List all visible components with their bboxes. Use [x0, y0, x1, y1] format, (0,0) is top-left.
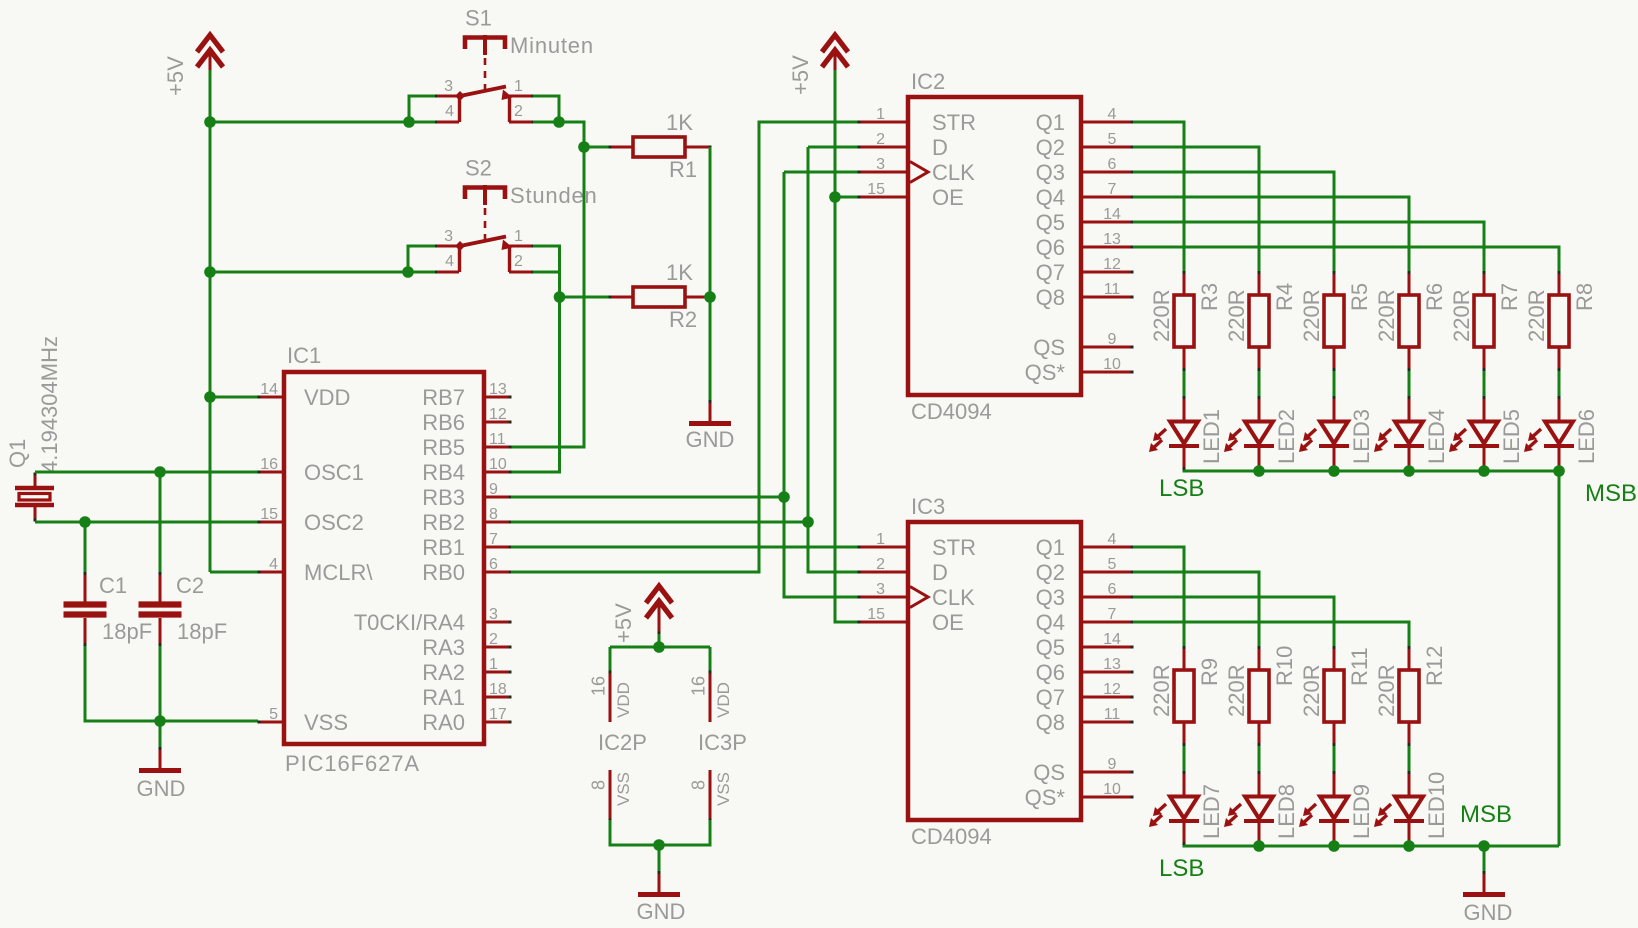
IC1 pin 15 OSC2	[258, 506, 364, 535]
svg-text:GND: GND	[686, 427, 735, 452]
svg-text:OSC1: OSC1	[304, 460, 364, 485]
wire R5 to LED3	[1333, 371, 1336, 396]
svg-text:4: 4	[269, 556, 278, 573]
svg-text:12: 12	[489, 406, 507, 423]
svg-text:RB7: RB7	[422, 385, 465, 410]
IC2 pin 3 CLK	[858, 156, 976, 185]
svg-text:LED1: LED1	[1199, 409, 1224, 464]
svg-text:17: 17	[489, 706, 507, 723]
svg-text:3: 3	[444, 228, 453, 245]
node OSC2/C1 junction	[79, 516, 91, 528]
svg-text:15: 15	[260, 506, 278, 523]
svg-text:220R: 220R	[1149, 664, 1174, 717]
wire +5V to S1 pins 3/4	[210, 96, 435, 122]
IC2 pin 14 Q5	[1036, 206, 1134, 235]
svg-text:220R: 220R	[1224, 289, 1249, 342]
IC3 pin 1 STR	[858, 531, 977, 560]
svg-text:RB2: RB2	[422, 510, 465, 535]
svg-text:10: 10	[1103, 356, 1121, 373]
svg-text:LED7: LED7	[1199, 784, 1224, 839]
svg-text:2: 2	[514, 253, 523, 270]
svg-text:Q6: Q6	[1036, 660, 1065, 685]
svg-text:8: 8	[589, 780, 609, 790]
wire R1/R2 right side to GND	[709, 147, 712, 406]
IC1 pin 12 RB6	[422, 406, 511, 435]
wire RB5 net: S1 out to R1 and to IC1 RB5 pin 11	[511, 122, 610, 447]
svg-text:LED6: LED6	[1574, 409, 1599, 464]
IC1 pin 17 RA0	[422, 706, 511, 735]
svg-text:1K: 1K	[666, 260, 693, 285]
svg-text:Minuten: Minuten	[510, 33, 594, 58]
svg-text:220R: 220R	[1374, 289, 1399, 342]
IC1 pin 10 RB4	[422, 456, 511, 485]
svg-text:RB3: RB3	[422, 485, 465, 510]
svg-text:Q1: Q1	[1036, 535, 1065, 560]
diode LED5	[1449, 396, 1524, 470]
node VSS junction	[653, 839, 665, 851]
node LED bus junction	[1478, 465, 1490, 477]
svg-text:9: 9	[1108, 756, 1117, 773]
svg-text:IC3: IC3	[911, 494, 945, 519]
svg-text:CD4094: CD4094	[911, 399, 992, 424]
IC1 pin 18 RA1	[422, 681, 511, 710]
svg-text:4: 4	[1108, 531, 1117, 548]
svg-text:18: 18	[489, 681, 507, 698]
svg-text:OSC2: OSC2	[304, 510, 364, 535]
node RB3 junction	[778, 491, 790, 503]
diode LED1	[1149, 396, 1224, 470]
svg-text:14: 14	[1103, 206, 1121, 223]
IC3 pin 14 Q5	[1036, 631, 1134, 660]
node LED bus junction	[1253, 465, 1265, 477]
svg-text:1: 1	[876, 531, 885, 548]
svg-text:+5V: +5V	[611, 603, 636, 643]
IC1 pin 2 RA3	[422, 631, 511, 660]
wire R4 to LED2	[1258, 371, 1261, 396]
wire LED cathode bus (lower bank)	[1184, 845, 1559, 846]
svg-text:3: 3	[444, 78, 453, 95]
svg-text:LED8: LED8	[1274, 784, 1299, 839]
+5V supply symbol (IC2 area)	[788, 35, 848, 95]
IC2 pin 10 QS*	[1025, 356, 1134, 385]
+5V supply symbol (power block)	[611, 586, 672, 643]
resistor R7 220R	[1449, 271, 1522, 371]
wire IC2 Q6 to R8	[1133, 247, 1559, 271]
svg-text:IC1: IC1	[287, 343, 321, 368]
diode LED4	[1374, 396, 1449, 470]
svg-text:RB5: RB5	[422, 435, 465, 460]
svg-text:C1: C1	[99, 573, 127, 598]
wire OSC1: crystal top to IC1 pin 16	[35, 471, 258, 474]
svg-text:R6: R6	[1422, 283, 1447, 311]
svg-text:GND: GND	[637, 899, 686, 924]
svg-text:Q4: Q4	[1036, 610, 1065, 635]
diode LED10	[1374, 771, 1449, 845]
wire R9 to LED7	[1183, 746, 1186, 771]
svg-text:12: 12	[1103, 256, 1121, 273]
svg-text:11: 11	[489, 431, 506, 448]
svg-text:220R: 220R	[1374, 664, 1399, 717]
node +5V/S1 junction	[204, 116, 216, 128]
capacitor C2 18pF	[139, 572, 228, 646]
wire RB4 net: S2 out to R2 and to IC1 RB4 pin 10	[511, 297, 610, 472]
svg-text:IC2P: IC2P	[598, 730, 647, 755]
svg-text:18pF: 18pF	[102, 619, 152, 644]
resistor R8 220R	[1524, 271, 1597, 371]
svg-text:QS: QS	[1033, 760, 1065, 785]
svg-text:5: 5	[1108, 131, 1117, 148]
wire +5V to IC1 VDD pin 14	[210, 396, 258, 399]
svg-text:9: 9	[489, 481, 498, 498]
svg-text:Q8: Q8	[1036, 710, 1065, 735]
svg-text:R12: R12	[1422, 646, 1447, 686]
svg-text:PIC16F627A: PIC16F627A	[285, 751, 420, 776]
svg-text:R9: R9	[1197, 658, 1222, 686]
IC1 pin 6 RB0	[422, 556, 511, 585]
+5V supply symbol (left rail)	[163, 35, 223, 96]
wire R12 to LED10	[1408, 746, 1411, 771]
svg-text:1: 1	[876, 106, 885, 123]
svg-text:Q6: Q6	[1036, 235, 1065, 260]
op IC1 PIC16F627A box	[284, 343, 484, 776]
node LED bus junction	[1403, 840, 1415, 852]
wire RB2 to IC2 D and IC3 D	[511, 147, 858, 572]
node +5V/S2 junction	[204, 266, 216, 278]
IC1 pin 3 T0CKI/RA4	[354, 606, 512, 635]
svg-text:220R: 220R	[1449, 289, 1474, 342]
svg-text:16: 16	[589, 676, 609, 696]
IC1 pin 1 RA2	[422, 656, 511, 685]
IC2 pin 12 Q7	[1036, 256, 1134, 285]
svg-text:D: D	[932, 135, 948, 160]
svg-text:7: 7	[489, 531, 498, 548]
node OSC1/C2 junction	[154, 466, 166, 478]
switch S2 (Stunden)	[434, 156, 598, 274]
svg-text:Q4: Q4	[1036, 185, 1065, 210]
svg-text:RB4: RB4	[422, 460, 465, 485]
svg-text:16: 16	[689, 676, 709, 696]
resistor R5 220R	[1299, 271, 1372, 371]
wire IC3 Q1 to R9	[1133, 547, 1184, 646]
IC3 pin 11 Q8	[1036, 706, 1134, 735]
IC2 pin 2 D	[858, 131, 948, 160]
svg-text:QS: QS	[1033, 335, 1065, 360]
op IC2 CD4094 box	[908, 69, 1081, 424]
svg-text:VSS: VSS	[714, 772, 733, 806]
ground symbol left	[137, 747, 186, 801]
node LED bus junction	[1328, 465, 1340, 477]
svg-text:6: 6	[1108, 581, 1117, 598]
node GND/VSS junction	[154, 715, 166, 727]
node R1/R2 junction	[704, 291, 716, 303]
svg-text:15: 15	[867, 606, 885, 623]
wire R11 to LED9	[1333, 746, 1336, 771]
crystal Q1 4.194304MHz	[5, 336, 62, 521]
IC1 pin 4 MCLR\	[258, 556, 374, 585]
wire RB1 to IC3 STR pin 1	[511, 546, 858, 549]
ground symbol for R1/R2	[686, 400, 735, 452]
wire R3 to LED1	[1183, 371, 1186, 396]
resistor R9 220R	[1149, 646, 1222, 746]
svg-text:LED10: LED10	[1424, 772, 1449, 839]
wire IC2 Q4 to R6	[1133, 197, 1409, 271]
svg-text:D: D	[932, 560, 948, 585]
node S2 output junction	[554, 291, 566, 303]
svg-text:CLK: CLK	[932, 160, 975, 185]
IC1 pin 14 VDD	[258, 381, 351, 410]
svg-text:220R: 220R	[1224, 664, 1249, 717]
svg-text:8: 8	[689, 780, 709, 790]
svg-text:2: 2	[514, 103, 523, 120]
svg-text:220R: 220R	[1299, 289, 1324, 342]
svg-text:Q5: Q5	[1036, 210, 1065, 235]
svg-text:4: 4	[1108, 106, 1117, 123]
svg-text:5: 5	[1108, 556, 1117, 573]
svg-text:10: 10	[1103, 781, 1121, 798]
ground symbol right	[1463, 871, 1512, 925]
svg-text:3: 3	[489, 606, 498, 623]
node LED bus junction	[1478, 840, 1490, 852]
svg-text:LSB: LSB	[1159, 475, 1204, 502]
svg-text:14: 14	[260, 381, 278, 398]
svg-text:S2: S2	[465, 156, 492, 181]
IC1 pin 16 OSC1	[258, 456, 364, 485]
svg-text:+5V: +5V	[788, 55, 813, 95]
svg-text:CD4094: CD4094	[911, 824, 992, 849]
svg-text:VSS: VSS	[614, 772, 633, 806]
wire IC2 Q2 to R4	[1133, 147, 1259, 271]
IC3 pin 5 Q2	[1036, 556, 1134, 585]
svg-text:Q3: Q3	[1036, 585, 1065, 610]
wire +5V to S2 pins 3/4	[210, 246, 435, 272]
svg-text:16: 16	[260, 456, 278, 473]
node S1 output junction	[553, 116, 565, 128]
svg-text:4: 4	[445, 103, 454, 120]
svg-text:7: 7	[1108, 181, 1117, 198]
IC1 pin 8 RB2	[422, 506, 511, 535]
IC2 pin 11 Q8	[1036, 281, 1134, 310]
IC1 pin 9 RB3	[422, 481, 511, 510]
svg-text:LED2: LED2	[1274, 409, 1299, 464]
wire RB3 to IC2 CLK and IC3 CLK	[511, 172, 858, 597]
svg-text:6: 6	[1108, 156, 1117, 173]
svg-text:7: 7	[1108, 606, 1117, 623]
op IC3 CD4094 box	[908, 494, 1081, 849]
svg-text:4: 4	[445, 253, 454, 270]
svg-text:Q7: Q7	[1036, 685, 1065, 710]
svg-text:11: 11	[1104, 706, 1121, 723]
resistor R1 1K	[609, 110, 712, 182]
svg-text:R3: R3	[1197, 283, 1222, 311]
svg-text:C2: C2	[176, 573, 204, 598]
capacitor C1 18pF	[64, 572, 153, 646]
svg-text:1: 1	[514, 228, 523, 245]
wire IC2 Q1 to R3	[1133, 122, 1184, 271]
wire R6 to LED4	[1408, 371, 1411, 396]
wire IC2 Q3 to R5	[1133, 172, 1334, 271]
resistor R10 220R	[1224, 646, 1297, 746]
wire GND stem left	[159, 721, 162, 748]
resistor R3 220R	[1149, 271, 1222, 371]
IC2 pin 4 Q1	[1036, 106, 1134, 135]
wire C1 top	[84, 522, 87, 572]
resistor R4 220R	[1224, 271, 1297, 371]
svg-text:OE: OE	[932, 185, 964, 210]
svg-text:13: 13	[1103, 231, 1121, 248]
svg-text:R7: R7	[1497, 283, 1522, 311]
svg-text:GND: GND	[137, 776, 186, 801]
svg-text:1: 1	[489, 656, 498, 673]
svg-text:R4: R4	[1272, 283, 1297, 311]
svg-text:LED9: LED9	[1349, 784, 1374, 839]
svg-text:QS*: QS*	[1025, 785, 1066, 810]
diode LED3	[1299, 396, 1374, 470]
svg-text:14: 14	[1103, 631, 1121, 648]
svg-text:Q8: Q8	[1036, 285, 1065, 310]
resistor R12 220R	[1374, 646, 1447, 746]
IC3 pin 15 OE	[858, 606, 964, 635]
node +5V/VDD junction	[204, 391, 216, 403]
svg-text:RA2: RA2	[422, 660, 465, 685]
svg-text:OE: OE	[932, 610, 964, 635]
svg-text:S1: S1	[465, 6, 492, 31]
wire C1/C2 bottoms to VSS pin 5	[85, 646, 258, 721]
svg-text:LED3: LED3	[1349, 409, 1374, 464]
svg-text:Q1: Q1	[1036, 110, 1065, 135]
resistor R2 1K	[609, 260, 712, 332]
svg-text:9: 9	[1108, 331, 1117, 348]
svg-text:+5V: +5V	[163, 56, 188, 96]
wire +5V to IC2P/IC3P VDD pins	[610, 634, 710, 672]
svg-text:4.194304MHz: 4.194304MHz	[37, 336, 62, 473]
svg-text:VSS: VSS	[304, 710, 348, 735]
node S2 left bracket junction	[402, 266, 414, 278]
svg-text:Q2: Q2	[1036, 560, 1065, 585]
wire IC3 Q4 to R12	[1133, 622, 1409, 646]
IC3 pin 7 Q4	[1036, 606, 1134, 635]
node LED bus junction	[1403, 465, 1415, 477]
node LED bus junction	[1253, 840, 1265, 852]
svg-text:MSB: MSB	[1460, 801, 1512, 828]
svg-text:R1: R1	[669, 157, 697, 182]
svg-text:RA3: RA3	[422, 635, 465, 660]
IC2 pin 9 QS	[1033, 331, 1133, 360]
svg-text:1: 1	[514, 78, 523, 95]
svg-text:T0CKI/RA4: T0CKI/RA4	[354, 610, 465, 635]
svg-text:LSB: LSB	[1159, 855, 1204, 882]
wire IC2 Q5 to R7	[1133, 222, 1484, 271]
wire OSC2: crystal bottom to IC1 pin 15	[35, 521, 258, 524]
IC2 pin 13 Q6	[1036, 231, 1134, 260]
power pin IC3P VSS 8	[689, 770, 734, 822]
svg-text:10: 10	[489, 456, 507, 473]
switch S1 (Minuten)	[434, 6, 594, 124]
svg-text:MCLR\: MCLR\	[304, 560, 373, 585]
svg-text:220R: 220R	[1299, 664, 1324, 717]
wire LED cathode bus (upper bank)	[1184, 470, 1559, 471]
node LED bus junction	[1553, 465, 1565, 477]
wire IC3 Q3 to R11	[1133, 597, 1334, 646]
svg-text:IC3P: IC3P	[698, 730, 747, 755]
IC3 pin 6 Q3	[1036, 581, 1134, 610]
node LED bus junction	[1328, 840, 1340, 852]
svg-text:220R: 220R	[1524, 289, 1549, 342]
svg-text:CLK: CLK	[932, 585, 975, 610]
svg-text:IC2: IC2	[911, 69, 945, 94]
diode LED8	[1224, 771, 1299, 845]
power pin IC2P VDD 16	[589, 671, 634, 723]
svg-text:18pF: 18pF	[177, 619, 227, 644]
svg-text:RB1: RB1	[422, 535, 465, 560]
svg-text:13: 13	[1103, 656, 1121, 673]
diode LED7	[1149, 771, 1224, 845]
node VDD junction	[653, 641, 665, 653]
wire S1 pins 1/2 to node RB5	[533, 96, 584, 147]
svg-text:3: 3	[876, 156, 885, 173]
svg-text:12: 12	[1103, 681, 1121, 698]
ground symbol power block	[637, 871, 686, 924]
svg-text:RA0: RA0	[422, 710, 465, 735]
IC3 pin 9 QS	[1033, 756, 1133, 785]
resistor R11 220R	[1299, 646, 1372, 746]
wire IC3 Q2 to R10	[1133, 572, 1259, 646]
svg-text:220R: 220R	[1149, 289, 1174, 342]
diode LED9	[1299, 771, 1374, 845]
svg-text:R5: R5	[1347, 283, 1372, 311]
svg-text:15: 15	[867, 181, 885, 198]
svg-text:Q1: Q1	[5, 439, 30, 468]
IC2 pin 7 Q4	[1036, 181, 1134, 210]
IC2 pin 5 Q2	[1036, 131, 1134, 160]
resistor R6 220R	[1374, 271, 1447, 371]
svg-text:LED4: LED4	[1424, 409, 1449, 464]
IC3 pin 10 QS*	[1025, 781, 1134, 810]
svg-text:QS*: QS*	[1025, 360, 1066, 385]
svg-text:R10: R10	[1272, 646, 1297, 686]
svg-text:VDD: VDD	[714, 682, 733, 718]
wire S2 pins 1/2 to node RB4	[533, 246, 560, 297]
svg-text:R2: R2	[669, 307, 697, 332]
svg-text:RB0: RB0	[422, 560, 465, 585]
wire +5V to IC1 MCLR pin 4	[210, 571, 258, 574]
IC3 pin 4 Q1	[1036, 531, 1134, 560]
svg-text:GND: GND	[1464, 900, 1513, 925]
svg-text:STR: STR	[932, 535, 976, 560]
node R1/RB5 junction	[578, 141, 590, 153]
IC1 pin 7 RB1	[422, 531, 511, 560]
power pin IC3P VDD 16	[689, 671, 734, 723]
svg-text:VDD: VDD	[614, 682, 633, 718]
wire C2 top	[159, 472, 162, 572]
svg-text:11: 11	[1104, 281, 1121, 298]
IC3 pin 2 D	[858, 556, 948, 585]
svg-text:STR: STR	[932, 110, 976, 135]
svg-text:8: 8	[489, 506, 498, 523]
svg-text:Q7: Q7	[1036, 260, 1065, 285]
svg-text:1K: 1K	[666, 110, 693, 135]
IC2 pin 6 Q3	[1036, 156, 1134, 185]
svg-text:13: 13	[489, 381, 507, 398]
node S1 left bracket junction	[403, 116, 415, 128]
wire VSS pins to GND	[610, 820, 710, 872]
node OE junction	[829, 191, 841, 203]
wire MSB column down to lower bus	[1558, 471, 1561, 846]
IC3 pin 12 Q7	[1036, 681, 1134, 710]
node RB2 junction	[802, 516, 814, 528]
svg-text:RB6: RB6	[422, 410, 465, 435]
svg-text:2: 2	[489, 631, 498, 648]
svg-text:R11: R11	[1347, 647, 1372, 686]
